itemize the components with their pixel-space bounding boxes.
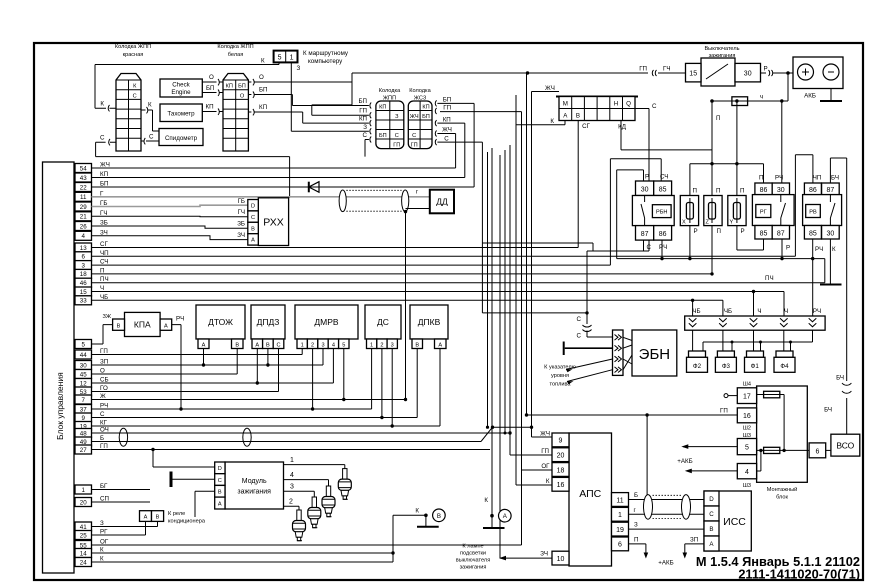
svg-text:В: В <box>266 342 270 348</box>
svg-text:М: М <box>563 101 568 108</box>
svg-text:ЖЧ: ЖЧ <box>545 85 555 92</box>
svg-text:2: 2 <box>311 342 314 348</box>
svg-text:Ж: Ж <box>100 393 106 400</box>
svg-text:3: 3 <box>321 342 324 348</box>
svg-text:45: 45 <box>80 371 87 378</box>
svg-text:С: С <box>647 244 652 251</box>
svg-text:ГП: ГП <box>100 348 108 355</box>
svg-text:Б: Б <box>634 492 638 499</box>
svg-text:Ч: Ч <box>757 308 761 315</box>
bus СГ pin13 to cluster connector <box>92 121 579 248</box>
wire РГ 85 down <box>763 239 765 250</box>
injector Ф1 <box>745 351 766 372</box>
svg-text:БГ: БГ <box>100 483 108 490</box>
vehicle speed sensor ДС <box>365 305 401 349</box>
wire BP white connector to X3 <box>248 87 369 106</box>
svg-text:16: 16 <box>743 413 751 420</box>
fuel pump ground <box>564 342 613 356</box>
wire ЗП pin30 sensor ground <box>92 349 324 367</box>
bus СЧ pin3 to relay РБН <box>92 159 662 265</box>
svg-text:2111-1411020-70(71): 2111-1411020-70(71) <box>738 567 860 582</box>
wire nest near relays <box>482 243 593 251</box>
wire ignition module B <box>195 491 215 517</box>
ECU pin 7 net Ж <box>75 393 106 404</box>
wire ЗБ pin26 to РХХ B <box>92 221 248 229</box>
svg-text:Z: Z <box>706 220 710 226</box>
svg-text:кондиционера: кондиционера <box>168 519 206 525</box>
svg-text:D: D <box>251 204 255 210</box>
svg-text:В: В <box>437 513 441 520</box>
svg-text:БП: БП <box>238 84 246 90</box>
wire РГ 87 down to РЧ trunk <box>780 239 783 260</box>
wire ЗП to ИСС A <box>683 536 705 558</box>
svg-text:КД: КД <box>618 124 627 131</box>
svg-text:ЖЧ: ЖЧ <box>100 162 110 169</box>
ECU control unit (Блок управления) <box>43 162 75 573</box>
svg-text:БЧ: БЧ <box>831 175 839 182</box>
svg-text:С: С <box>149 134 154 141</box>
svg-text:красная: красная <box>123 52 144 58</box>
svg-text:5: 5 <box>81 341 85 348</box>
svg-text:РЧ: РЧ <box>775 175 783 182</box>
svg-text:ГБ: ГБ <box>238 198 245 205</box>
immobilizer АПС <box>540 431 628 567</box>
svg-text:СП: СП <box>100 496 109 503</box>
ECU pin 19 net КГ <box>75 420 108 431</box>
svg-text:Y: Y <box>730 220 734 226</box>
svg-text:1: 1 <box>618 512 622 519</box>
svg-text:+АКБ: +АКБ <box>658 560 673 567</box>
svg-text:15: 15 <box>689 70 697 77</box>
svg-text:С: С <box>444 136 449 143</box>
svg-text:подсветки: подсветки <box>460 551 486 557</box>
svg-text:З: З <box>363 124 367 131</box>
wire КПА В to pin5 <box>92 325 113 344</box>
svg-text:Н: Н <box>614 101 618 108</box>
svg-text:КП: КП <box>226 84 233 90</box>
svg-text:Ч: Ч <box>784 308 788 315</box>
wire net БП pin22 to X4 <box>92 103 475 187</box>
svg-text:6: 6 <box>618 542 622 549</box>
bus ЧБ pin33 to injectors <box>92 299 723 316</box>
svg-text:A: A <box>251 238 255 244</box>
ECU pin 6 net ЧП <box>75 250 109 261</box>
svg-text:54: 54 <box>80 165 87 172</box>
wire KP tachometer to white connector <box>202 104 223 115</box>
wire СБ pin12 to ДПДЗ А and ДМРВ 4 <box>92 349 334 385</box>
svg-text:85: 85 <box>809 230 817 237</box>
svg-text:ЧБ: ЧБ <box>692 308 700 315</box>
speedometer <box>159 129 203 146</box>
svg-text:25: 25 <box>80 532 87 539</box>
svg-text:30: 30 <box>80 362 87 369</box>
svg-text:СГ: СГ <box>582 123 590 130</box>
svg-text:Тахометр: Тахометр <box>167 111 195 118</box>
svg-text:КП: КП <box>206 104 214 111</box>
ECU pin 14 net К <box>75 547 104 558</box>
svg-text:87: 87 <box>827 187 835 194</box>
svg-text:П: П <box>634 536 638 543</box>
ground point A <box>483 497 511 528</box>
diode VD on БП wire <box>309 182 319 193</box>
wire O check-engine <box>202 74 223 85</box>
svg-text:К лампе: К лампе <box>462 544 483 550</box>
svg-text:20: 20 <box>557 453 565 460</box>
svg-text:зажигания: зажигания <box>460 565 487 571</box>
svg-text:А: А <box>144 515 148 521</box>
wire К pin14 to ground B <box>92 508 426 563</box>
wire C red-connector loop down <box>96 135 290 198</box>
svg-text:1: 1 <box>370 342 373 348</box>
speed sensor unit ВСО <box>831 434 860 456</box>
svg-text:БП: БП <box>206 85 215 92</box>
wire Z from computer connector down <box>291 62 369 131</box>
wire ОЧ pin48 <box>92 145 553 455</box>
svg-text:46: 46 <box>80 280 87 287</box>
svg-text:З: З <box>100 520 104 527</box>
wire С pin9 to ДС 2 ДПКВ В <box>92 349 418 420</box>
wire C speedometer <box>141 134 159 145</box>
svg-text:Engine: Engine <box>171 89 191 96</box>
wire Ж pin7 to ДМРВ 5 <box>92 349 406 402</box>
svg-text:КГ: КГ <box>100 420 108 427</box>
coolant temp sensor ДТОЖ <box>196 305 245 349</box>
svg-text:ГП: ГП <box>639 66 647 73</box>
ECU pin 26 net ЗБ <box>75 220 108 231</box>
svg-text:уровня: уровня <box>551 373 569 379</box>
fuel pump ЭБН <box>623 330 677 376</box>
arcs right of X4 <box>435 97 452 146</box>
connector X4 ZhSZ <box>408 88 432 149</box>
svg-text:86: 86 <box>809 187 817 194</box>
battery АКБ <box>793 57 843 100</box>
trunk ЖЧ to АПС9 <box>530 85 559 437</box>
svg-text:ЗБ: ЗБ <box>100 220 108 227</box>
injector rail drops <box>693 330 784 351</box>
svg-text:ЧБ: ЧБ <box>724 308 732 315</box>
svg-text:К: К <box>484 497 488 504</box>
fuse X <box>680 188 698 261</box>
wire С down to fuel pump <box>577 251 613 340</box>
wire net КП pin43 to X4 <box>92 123 465 177</box>
svg-text:19: 19 <box>616 527 624 534</box>
wire П rail to fuse tops <box>690 99 764 195</box>
svg-text:ДМРВ: ДМРВ <box>314 317 339 327</box>
wire ГО pin53 to ДПДЗ С <box>92 349 279 392</box>
svg-text:ЖЧ: ЖЧ <box>410 114 419 120</box>
ECU pin 30 net ЗП <box>75 359 108 370</box>
wires to fuel level gauge <box>544 359 612 388</box>
svg-text:ГЧ: ГЧ <box>238 209 245 216</box>
shielded cable to knock sensor <box>339 190 409 212</box>
svg-text:86: 86 <box>760 187 768 194</box>
ECU pin 9 net С <box>75 411 105 422</box>
svg-text:ЧП: ЧП <box>813 175 822 182</box>
spark plug 4 <box>322 486 335 517</box>
svg-text:Выключатель: Выключатель <box>704 46 739 52</box>
injector Ф2 <box>687 351 708 372</box>
wire ГЧ pin21 to РХХ C <box>92 209 248 217</box>
svg-text:С: С <box>276 342 280 348</box>
svg-text:Р: Р <box>764 66 768 73</box>
svg-text:2: 2 <box>380 342 383 348</box>
svg-text:АКБ: АКБ <box>804 93 816 100</box>
svg-text:Ш3: Ш3 <box>743 483 751 489</box>
ECU pin 21 net ГЧ <box>75 210 107 221</box>
svg-text:ДТОЖ: ДТОЖ <box>208 317 233 327</box>
svg-text:+АКБ: +АКБ <box>677 458 692 465</box>
svg-text:С: С <box>133 93 137 99</box>
ECU pin 53 net ГО <box>75 385 108 396</box>
ECU pin 33 net ЧБ <box>75 294 108 305</box>
svg-text:29: 29 <box>80 204 87 211</box>
wire ч to РГ 30 <box>780 99 783 183</box>
svg-text:26: 26 <box>80 223 87 230</box>
ground point B <box>417 509 445 527</box>
svg-text:85: 85 <box>760 230 768 237</box>
svg-text:СЧ: СЧ <box>660 174 668 181</box>
title block text <box>696 554 860 582</box>
injector supply rail connector <box>685 308 825 330</box>
wire Р feed to РБН 30 <box>617 170 669 259</box>
svg-text:С: С <box>100 411 105 418</box>
wire АПС10 ЗЧ to lamp <box>499 551 552 561</box>
svg-text:ГП: ГП <box>393 142 400 148</box>
bus Ч pin15 to injectors <box>92 290 785 316</box>
svg-text:РБН: РБН <box>656 210 667 216</box>
svg-text:ГП: ГП <box>411 142 418 148</box>
МБ pin 5 Ш3 <box>737 433 756 455</box>
injector Ф3 <box>715 351 736 372</box>
wire +АКБ arrows left of МБ <box>677 444 737 473</box>
wire АПС6 П down <box>629 536 649 558</box>
svg-text:С: С <box>395 133 399 139</box>
svg-text:14: 14 <box>80 550 87 557</box>
spark plug wires 1 4 3 2 <box>284 457 345 510</box>
wire ГБ pin29 to РХХ D <box>92 198 248 207</box>
svg-text:87: 87 <box>641 231 649 238</box>
svg-text:48: 48 <box>80 430 87 437</box>
ECU pin 27 net ГП <box>75 443 108 454</box>
svg-text:А: А <box>202 342 206 348</box>
wire drop to АПС11 <box>645 413 648 501</box>
svg-text:ДД: ДД <box>436 197 448 207</box>
wire KP white connector to X3 <box>248 104 369 123</box>
injector Ф4 <box>774 351 795 372</box>
svg-text:1: 1 <box>290 457 294 464</box>
svg-text:B: B <box>218 490 222 496</box>
svg-text:4: 4 <box>745 469 749 476</box>
wire СП pin20 <box>92 501 151 503</box>
ECU pin 13 net СГ <box>75 241 108 252</box>
МБ pin 4 Ш3 <box>737 464 756 490</box>
svg-text:КП: КП <box>379 104 386 110</box>
labels left of X3 <box>358 98 371 143</box>
svg-text:РЧ: РЧ <box>813 308 821 315</box>
bus ПЧ pin46 <box>92 259 825 283</box>
svg-text:37: 37 <box>80 406 87 413</box>
svg-text:ОГ: ОГ <box>541 463 550 470</box>
svg-text:ДС: ДС <box>377 317 389 327</box>
svg-text:Q: Q <box>626 101 631 108</box>
svg-text:18: 18 <box>80 271 87 278</box>
svg-text:КП: КП <box>259 104 267 111</box>
svg-text:Р: Р <box>645 174 649 181</box>
svg-text:БЧ: БЧ <box>836 375 844 382</box>
wire АПС19 З to ИСС B <box>629 522 705 530</box>
svg-text:Блок управления: Блок управления <box>55 372 65 440</box>
ECU pin 37 net РЧ <box>75 403 108 414</box>
svg-text:Р: Р <box>694 228 698 235</box>
wire ignition module D feed <box>153 450 215 468</box>
wire РВ 87 БЧ up to ВСО trunk <box>824 158 851 434</box>
svg-text:КПА: КПА <box>134 320 151 330</box>
svg-text:РГ: РГ <box>100 529 108 536</box>
svg-text:СГ: СГ <box>100 241 108 248</box>
svg-text:4: 4 <box>81 233 85 240</box>
svg-text:10: 10 <box>557 556 565 563</box>
spark plug 3 <box>308 497 321 528</box>
wire БГ pin1 <box>92 489 151 491</box>
svg-text:5: 5 <box>342 342 345 348</box>
ECU pin 3 net СЧ <box>75 259 108 270</box>
svg-text:Колодка ЖПП: Колодка ЖПП <box>115 44 151 50</box>
fuel pump relay РБН <box>632 181 674 251</box>
svg-text:О: О <box>259 74 264 81</box>
svg-text:П: П <box>693 188 697 195</box>
svg-text:11: 11 <box>80 194 87 201</box>
svg-text:ГП: ГП <box>541 448 549 455</box>
svg-text:Колодка ЖПП: Колодка ЖПП <box>217 44 253 50</box>
svg-text:24: 24 <box>80 559 87 566</box>
svg-text:РХХ: РХХ <box>263 217 284 229</box>
svg-text:К: К <box>415 508 419 515</box>
ECU pin 20 net СП <box>75 496 109 507</box>
svg-text:4: 4 <box>290 472 294 479</box>
svg-text:ГО: ГО <box>100 385 108 392</box>
lamp note text <box>456 544 490 571</box>
lamp Check Engine <box>160 79 202 97</box>
wire РБН 87 С down <box>643 240 645 251</box>
svg-text:3: 3 <box>290 484 294 491</box>
wire O white connector to ignition trunk <box>248 71 648 85</box>
wire net ЖЧ pin54 to X4 <box>92 134 456 169</box>
svg-text:D: D <box>218 466 222 472</box>
svg-text:7: 7 <box>81 397 85 404</box>
svg-text:C: C <box>218 478 222 484</box>
svg-text:ч: ч <box>760 94 763 101</box>
svg-text:B: B <box>251 226 255 232</box>
wire ГП pin27 <box>92 448 491 451</box>
svg-text:П: П <box>759 175 763 182</box>
svg-text:К: К <box>832 246 836 253</box>
svg-text:К: К <box>100 547 104 554</box>
svg-text:33: 33 <box>80 298 87 305</box>
svg-text:ПЧ: ПЧ <box>765 275 774 282</box>
svg-text:О: О <box>240 93 245 99</box>
svg-text:85: 85 <box>659 186 667 193</box>
svg-text:К маршрутному: К маршрутному <box>303 50 349 57</box>
svg-text:30: 30 <box>777 187 785 194</box>
wire ОГ pin55 <box>92 544 522 546</box>
wire С from grid to relay <box>587 103 657 251</box>
trunk ОГ to АПС18 <box>440 112 552 545</box>
wire ГП-ГЧ into ignition switch <box>639 66 685 77</box>
svg-text:16: 16 <box>557 482 565 489</box>
svg-text:ЗП: ЗП <box>100 359 108 366</box>
svg-text:B: B <box>709 526 713 533</box>
svg-text:Спидометр: Спидометр <box>165 135 198 142</box>
svg-text:РЧ: РЧ <box>659 244 667 251</box>
svg-text:2: 2 <box>289 499 293 506</box>
svg-text:4: 4 <box>332 342 335 348</box>
svg-text:К реле: К реле <box>168 511 185 517</box>
svg-text:Ф3: Ф3 <box>722 363 731 370</box>
svg-text:А: А <box>438 342 442 348</box>
svg-text:ДПДЗ: ДПДЗ <box>257 317 280 327</box>
svg-text:Ш4: Ш4 <box>743 382 751 388</box>
svg-text:9: 9 <box>81 415 85 422</box>
svg-text:П: П <box>717 228 721 235</box>
connector X3 ZhPP <box>376 88 404 149</box>
ignition module Модуль зажигания <box>215 462 284 509</box>
svg-text:ГП: ГП <box>100 443 108 450</box>
svg-text:Колодка: Колодка <box>379 88 401 94</box>
svg-text:44: 44 <box>80 352 87 359</box>
svg-text:ИСС: ИСС <box>723 516 746 528</box>
svg-text:41: 41 <box>80 524 87 531</box>
svg-text:П: П <box>716 188 720 195</box>
wire ГП pin44 to ДМРВ 1 <box>92 349 303 355</box>
svg-text:ЧБ: ЧБ <box>100 294 108 301</box>
shielded cable pins 48-49 <box>119 428 251 446</box>
svg-text:РЧ: РЧ <box>176 316 184 323</box>
svg-text:Х: Х <box>682 220 686 226</box>
diagnostic connector to route computer <box>274 50 349 65</box>
ECU pin 1 net БГ <box>75 483 108 494</box>
svg-text:Check: Check <box>172 82 190 89</box>
svg-text:БП: БП <box>259 87 268 94</box>
bus ЧП pin6 to relay РВ <box>92 155 813 256</box>
wire Р ignition to battery <box>761 66 794 77</box>
svg-text:БП: БП <box>443 97 452 104</box>
svg-text:ПЧ: ПЧ <box>100 276 109 283</box>
svg-text:ОГ: ОГ <box>100 539 109 546</box>
svg-text:86: 86 <box>659 231 667 238</box>
svg-text:БЧ: БЧ <box>824 407 832 414</box>
wire КПА А РЧ down <box>172 325 183 411</box>
svg-text:З: З <box>297 65 301 72</box>
fuse Z <box>704 188 722 235</box>
wire net С X4 down trunk <box>437 142 588 314</box>
svg-text:ЗЧ: ЗЧ <box>237 232 245 239</box>
svg-text:9: 9 <box>559 438 563 445</box>
trunk П vertical <box>710 101 720 276</box>
svg-text:5: 5 <box>278 54 282 61</box>
wire net Г pin11 gray to knock sensor <box>92 189 430 197</box>
svg-text:К: К <box>100 556 104 563</box>
spark plug 1 <box>338 469 351 500</box>
ECU pin 43 net КП <box>75 171 108 182</box>
wire ЗЧ pin4 to РХХ A <box>92 232 248 240</box>
svg-text:В: В <box>117 323 121 329</box>
shielded cable АПС-ИСС <box>644 495 691 520</box>
ECU pin 29 net ГБ <box>75 200 107 211</box>
svg-text:ГЧ: ГЧ <box>100 210 107 217</box>
svg-text:Р: Р <box>741 228 745 235</box>
svg-text:выключателя: выключателя <box>456 558 490 564</box>
wire Б pin49 diagonal to АПС9 <box>92 426 532 442</box>
